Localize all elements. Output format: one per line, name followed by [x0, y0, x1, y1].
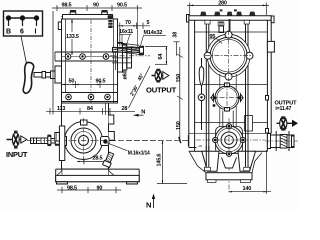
svg-text:M.16x1/14: M.16x1/14 — [128, 151, 150, 157]
shift pattern box — [4, 11, 43, 36]
input shaft centerline — [27, 140, 58, 142]
svg-text:150: 150 — [176, 74, 182, 83]
left wall stub at input level — [55, 133, 60, 142]
dim 64 (rotated) — [145, 46, 167, 64]
interior vertical housing lines — [219, 74, 221, 151]
dim 140 bottom right — [229, 150, 271, 194]
dim 70 / 5 — [117, 23, 150, 47]
main body outline (left view) upper — [62, 19, 118, 103]
back row bolts above cover — [220, 9, 223, 11]
right wall lug — [267, 41, 274, 52]
INPUT icon (gear+arrow) — [7, 131, 27, 149]
svg-text:133.5: 133.5 — [66, 34, 79, 40]
lower-right bearing boss 2 — [109, 132, 115, 141]
lower flange bolt 3 — [105, 94, 111, 100]
svg-text:70: 70 — [125, 20, 131, 26]
right interior boss — [245, 116, 253, 132]
svg-text:145,6: 145,6 — [157, 154, 163, 167]
dim 145.6 vertical — [110, 141, 200, 184]
drain plug (bottom right, hatched) — [103, 152, 115, 168]
right wall step — [267, 132, 271, 134]
left edge lug below cover — [58, 22, 61, 30]
small tabs right wall — [266, 96, 269, 101]
svg-text:OUTPUT: OUTPUT — [146, 86, 177, 95]
svg-text:140: 140 — [243, 186, 252, 192]
circle A (top, right view) — [207, 34, 250, 77]
circle C boss plate — [216, 127, 243, 154]
svg-text:150: 150 — [176, 121, 182, 130]
right view body outline — [189, 16, 271, 148]
svg-text:98.5: 98.5 — [67, 185, 77, 191]
PTO shaft centerline — [110, 55, 150, 57]
circle C centerlines — [196, 118, 265, 193]
svg-text:6: 6 — [20, 29, 24, 36]
top dim line 98.5 / 90 / 90.5 — [52, 5, 142, 11]
svg-text:5: 5 — [147, 20, 150, 26]
dim 150/150 vertical — [177, 47, 183, 143]
lower flange band with bolts — [62, 93, 118, 104]
right side output bell of body — [112, 43, 132, 73]
right view inner walls — [195, 20, 268, 151]
OUTPUT icon (right view) — [277, 116, 299, 130]
svg-text:38: 38 — [172, 32, 178, 38]
svg-text:90.5: 90.5 — [96, 79, 106, 85]
upper flange bolt 3 — [103, 54, 109, 60]
svg-text:50: 50 — [69, 79, 75, 85]
svg-text:N: N — [146, 201, 151, 210]
right tie rod — [244, 20, 250, 171]
input circle left lug — [62, 137, 67, 146]
cover bolts (right view, dark heads) — [201, 12, 256, 16]
interior horizontal lines (right view) — [195, 31, 268, 33]
svg-text:28: 28 — [122, 106, 128, 112]
interior wall lines — [65, 19, 67, 93]
dim 133.5 vertical — [71, 20, 73, 56]
centerlines of input circle — [62, 118, 106, 163]
lever shaft — [34, 71, 62, 79]
svg-text:98.5: 98.5 — [62, 3, 72, 9]
vertical dashed centerline of gear train — [90, 20, 92, 103]
svg-text:280: 280 — [218, 1, 227, 7]
N arrow bottom (up) — [152, 194, 155, 209]
right view top cover — [187, 15, 275, 23]
stud above circle A — [229, 19, 231, 33]
dim 50 / 90.5 inside body — [62, 81, 117, 88]
left wall fitting (right view, input axis) — [188, 136, 202, 147]
dim 280 top — [187, 3, 269, 16]
input circle right lug with bolt — [101, 137, 110, 146]
svg-text:N: N — [141, 110, 145, 116]
left spindle / shifter rod (right view) — [198, 58, 205, 130]
shift pattern labels B 6 I — [6, 29, 37, 36]
bottom dim 98.5 / 90 — [57, 187, 121, 193]
svg-text:ø60: ø60 — [123, 70, 129, 79]
lever boss on body left — [55, 66, 62, 83]
circle B centerline — [210, 97, 244, 99]
feet (right view) — [189, 151, 268, 182]
upper flange bolt 1 — [65, 54, 71, 60]
leader from shift box to lever knob — [21, 36, 27, 64]
svg-text:90: 90 — [97, 185, 103, 191]
input housing circle — [65, 122, 103, 160]
svg-text:28.5: 28.5 — [93, 156, 103, 162]
filler cap (right view, dark mushroom) — [218, 22, 225, 33]
extension line from top dim to shaft end — [136, 11, 138, 47]
upper flange band with bolts — [55, 52, 118, 61]
breather cap (left view, dark striped cylinder) — [108, 15, 114, 28]
circle A ears — [204, 31, 253, 80]
base / feet (left view) — [56, 169, 140, 184]
lower flange bolt 2 — [88, 94, 94, 100]
left tie rod — [205, 20, 211, 171]
output shaft (right view) — [267, 131, 294, 151]
N arrow (mid right) — [134, 114, 144, 117]
main body lower part — [62, 103, 109, 169]
cover bolt 2 — [102, 11, 108, 15]
svg-text:i=11.47: i=11.47 — [275, 106, 291, 112]
top-right PTO shaft with keyway — [113, 43, 144, 55]
cover bolt 1 — [70, 11, 76, 15]
dim line 113 / 84 / 28 — [46, 108, 135, 115]
OUTPUT icon (left view, gear+arrow) — [152, 69, 169, 83]
svg-text:113: 113 — [57, 106, 65, 112]
input shaft — [31, 126, 65, 161]
extension line left (x=53) — [52, 11, 54, 115]
lower-right bearing boss 1 — [109, 115, 114, 124]
svg-text:90: 90 — [93, 3, 99, 9]
svg-text:B: B — [6, 29, 11, 36]
circle A centerlines — [205, 30, 252, 81]
tie rods over feet — [205, 146, 250, 171]
top cover — [61, 15, 113, 20]
input circle top nub — [81, 120, 88, 125]
output shaft centerline — [265, 140, 298, 142]
lower flange bolt 1 — [66, 94, 72, 100]
lever knob — [23, 62, 33, 93]
circle C (bottom, right view) — [213, 124, 246, 157]
circle B (middle, right view) — [211, 83, 243, 111]
svg-text:INPUT: INPUT — [6, 150, 28, 159]
section diagonal line with angles — [129, 66, 151, 108]
svg-text:I: I — [35, 29, 37, 36]
svg-text:90.5: 90.5 — [117, 3, 127, 9]
neck between circles B and C — [223, 111, 233, 127]
upper flange bolt 2 — [80, 54, 86, 60]
